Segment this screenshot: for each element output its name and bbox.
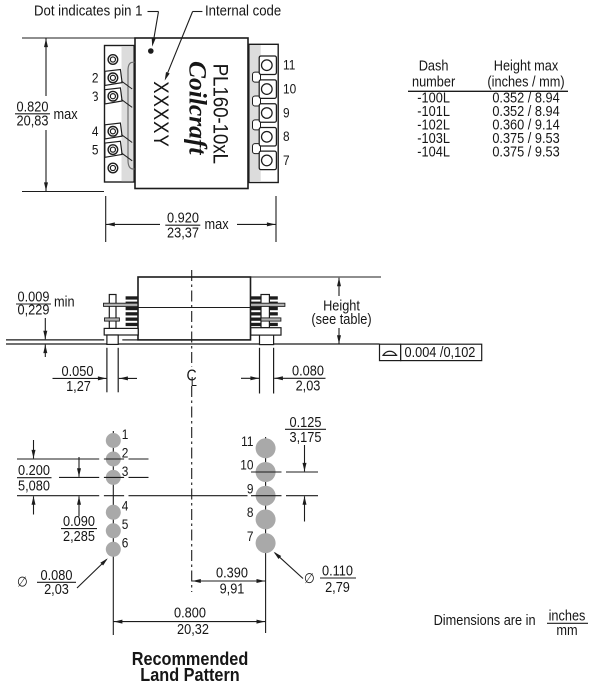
internal code leader line	[165, 12, 203, 81]
pin 1 leader line	[148, 12, 159, 47]
diameter callout 0.080/2,03	[17, 558, 108, 597]
table row -104L	[417, 144, 559, 160]
svg-text:5: 5	[92, 142, 99, 158]
pin 9 square pad	[259, 104, 276, 123]
svg-text:6: 6	[122, 535, 129, 551]
right lead foot	[251, 328, 281, 335]
land pad 7 label	[247, 528, 254, 544]
svg-text:0.375 / 9.53: 0.375 / 9.53	[492, 144, 559, 160]
label Internal code	[205, 2, 281, 19]
marking text XXXXY	[149, 81, 172, 147]
land pad 6	[106, 542, 121, 557]
land pad 2 label	[122, 445, 129, 461]
left lead pin fins	[126, 296, 138, 326]
svg-text:20,83: 20,83	[17, 113, 49, 129]
dimension 0.080/2,03	[241, 363, 326, 394]
dimension 0.009/0,229 min	[16, 289, 75, 357]
land pad 7	[256, 533, 276, 553]
pin 7 square pad	[259, 151, 276, 170]
svg-text:Internal code: Internal code	[205, 2, 281, 19]
right pin header strip	[249, 44, 278, 182]
land pad 5 label	[122, 516, 129, 532]
svg-text:L: L	[191, 375, 198, 389]
land pad 3 label	[122, 463, 129, 479]
side view body mid line	[138, 307, 251, 309]
right crimp bar lower	[261, 318, 281, 321]
table header	[412, 58, 565, 90]
label Dot indicates pin 1	[34, 2, 143, 19]
left crimp bar lower	[105, 318, 120, 321]
pin 11 square pad	[259, 56, 276, 74]
pin 5 terminal plate	[105, 141, 132, 161]
dimension 0.090/2,285	[61, 457, 97, 544]
top view pin 5 label	[92, 142, 99, 158]
svg-text:(see table): (see table)	[311, 311, 371, 327]
right crimp bar upper	[251, 303, 285, 306]
centerline symbol	[187, 367, 198, 389]
svg-text:2,03: 2,03	[296, 378, 321, 394]
svg-text:20,32: 20,32	[177, 621, 209, 637]
top view 0.820 dim top extension line	[22, 37, 135, 39]
dimension 0.050/1,27	[53, 363, 138, 394]
right header tab 1	[253, 72, 261, 82]
land pad 11 label	[241, 433, 253, 449]
height dim extension line	[251, 276, 382, 278]
pin 8 square pad	[259, 128, 276, 147]
svg-text:2,79: 2,79	[325, 579, 350, 595]
land pad 4 label	[122, 498, 129, 514]
svg-text:XXXXY: XXXXY	[149, 81, 172, 147]
svg-text:PL160-10xL: PL160-10xL	[208, 64, 231, 164]
svg-text:0.080: 0.080	[292, 363, 324, 379]
svg-text:11: 11	[283, 57, 295, 73]
pad 10 level extension line	[251, 471, 318, 473]
seating plane upper line	[6, 339, 138, 341]
land pad 4	[106, 505, 121, 520]
left lead through-pin	[107, 335, 118, 392]
svg-text:2,03: 2,03	[44, 581, 69, 597]
right lead post	[261, 295, 269, 328]
left pin header strip	[105, 46, 135, 183]
top view pin 7 label	[283, 152, 290, 168]
svg-text:number: number	[412, 74, 456, 90]
svg-text:0.090: 0.090	[63, 513, 95, 529]
dimension 0.820/20,83 max	[2, 38, 104, 192]
dimension 0.390/9,91	[192, 565, 266, 597]
svg-text:2: 2	[92, 70, 99, 86]
dimension Height (see table)	[311, 278, 371, 344]
svg-text:0.920: 0.920	[167, 210, 199, 226]
svg-text:9: 9	[283, 105, 290, 121]
land pattern left column line	[112, 431, 114, 635]
flatness callout 0.004/0,102	[380, 344, 482, 360]
svg-text:Dimensions are in: Dimensions are in	[434, 612, 536, 628]
right lead through-pin	[260, 335, 274, 393]
svg-text:max: max	[205, 216, 229, 232]
pin 10 square pad	[259, 80, 276, 99]
pin 4 eyelet	[108, 127, 118, 137]
svg-text:inches: inches	[549, 608, 586, 624]
svg-text:3,175: 3,175	[290, 429, 322, 445]
land pad 10	[256, 462, 276, 482]
Coilcraft script logo	[184, 61, 213, 155]
svg-text:4: 4	[122, 498, 129, 514]
land pad 1	[106, 433, 121, 448]
svg-text:11: 11	[241, 433, 253, 449]
svg-text:9: 9	[247, 481, 254, 497]
land pattern right column line	[265, 437, 267, 633]
pad 2 level extension line	[17, 458, 149, 460]
svg-text:0.200: 0.200	[18, 462, 50, 478]
left bobbin flange edge	[128, 62, 135, 169]
table row -102L	[417, 117, 560, 133]
top view pin 4 label	[92, 123, 99, 139]
svg-text:8: 8	[247, 504, 254, 520]
top view pin 10 label	[283, 81, 296, 97]
land pad 1 label	[122, 426, 129, 442]
svg-text:1: 1	[122, 426, 129, 442]
marking text PL160-10xL	[208, 64, 231, 164]
land pad 2	[106, 452, 121, 467]
pin 2 eyelet	[108, 73, 118, 83]
pin 10 eyelet	[262, 84, 273, 95]
pin 11 eyelet	[262, 60, 273, 71]
svg-text:23,37: 23,37	[167, 225, 199, 241]
units note	[434, 608, 588, 639]
right header tab 3	[253, 120, 261, 130]
pin 9 eyelet	[262, 108, 273, 119]
pin 1 indicator dot	[148, 48, 154, 54]
pin 7 eyelet	[262, 155, 273, 166]
svg-text:5: 5	[122, 516, 129, 532]
dimension 0.920/23,37 max	[106, 196, 276, 242]
pin 5 eyelet	[108, 145, 118, 155]
top view pin 11 label	[283, 57, 295, 73]
svg-text:10: 10	[283, 81, 296, 97]
top view pin 8 label	[283, 128, 290, 144]
svg-text:0.390: 0.390	[216, 565, 248, 581]
top view pin 9 label	[283, 105, 290, 121]
pin 2 terminal plate	[105, 70, 132, 90]
svg-text:mm: mm	[556, 622, 577, 638]
svg-text:∅: ∅	[17, 574, 28, 590]
table header rule	[408, 90, 568, 92]
land pad 10 label	[240, 457, 253, 473]
land pad 6 label	[122, 535, 129, 551]
svg-text:0.800: 0.800	[174, 605, 206, 621]
top view body outline	[135, 38, 248, 189]
diameter callout 0.110/2,79	[274, 552, 356, 595]
svg-text:min: min	[54, 294, 75, 310]
svg-text:0.125: 0.125	[290, 414, 322, 430]
svg-text:2: 2	[122, 445, 129, 461]
pin 8 eyelet	[262, 132, 273, 143]
right header tab 4	[253, 144, 261, 154]
dimension 0.200/5,080	[17, 440, 52, 515]
vertical centerline	[191, 270, 193, 592]
svg-text:9,91: 9,91	[220, 581, 245, 597]
svg-text:7: 7	[283, 152, 290, 168]
pin 3 eyelet	[108, 91, 118, 101]
svg-text:1,27: 1,27	[66, 378, 91, 394]
top view pin 3 label	[92, 88, 99, 104]
table row -103L	[417, 130, 559, 146]
svg-text:8: 8	[283, 128, 290, 144]
top view pin 2 label	[92, 70, 99, 86]
svg-text:2,285: 2,285	[63, 528, 95, 544]
right lead pin fins	[251, 296, 278, 326]
svg-text:0.110: 0.110	[322, 563, 353, 579]
pad 9 level reference line	[17, 495, 318, 497]
svg-text:10: 10	[240, 457, 253, 473]
seating plane lower line	[6, 343, 380, 345]
side view body	[138, 277, 251, 340]
svg-text:0.004 /0,102: 0.004 /0,102	[405, 344, 476, 360]
land pad 8 label	[247, 504, 254, 520]
svg-text:Height max: Height max	[494, 58, 559, 74]
land pad 11	[256, 438, 276, 458]
svg-text:7: 7	[247, 528, 254, 544]
dimension 0.125/3,175	[285, 414, 326, 521]
svg-text:3: 3	[122, 463, 129, 479]
svg-text:Coilcraft: Coilcraft	[184, 61, 213, 155]
svg-text:-104L: -104L	[417, 144, 450, 160]
land pad 8	[256, 509, 276, 529]
svg-text:5,080: 5,080	[18, 478, 50, 494]
land pad 9	[256, 486, 276, 506]
land pad 3	[106, 470, 121, 485]
pad 3 level extension line	[59, 476, 149, 478]
left lead post	[109, 295, 116, 329]
svg-text:∅: ∅	[304, 570, 315, 586]
pin 4 terminal plate	[105, 123, 132, 143]
table row -101L	[417, 103, 560, 119]
svg-text:Dash: Dash	[419, 58, 449, 74]
svg-text:max: max	[54, 106, 78, 122]
left crimp bar upper	[104, 303, 138, 306]
left lead foot	[104, 328, 138, 335]
svg-text:0,229: 0,229	[18, 302, 50, 318]
caption Recommended Land Pattern	[132, 648, 249, 685]
svg-text:Land Pattern: Land Pattern	[140, 664, 239, 685]
dimension 0.800/20,32	[113, 605, 265, 637]
land pad 9 label	[247, 481, 254, 497]
right header tab 2	[253, 96, 261, 106]
pin 6 eyelet	[108, 163, 118, 173]
pin 3 terminal plate	[105, 88, 132, 108]
svg-text:Dot indicates pin 1: Dot indicates pin 1	[34, 2, 143, 19]
land pad 5	[106, 523, 121, 538]
svg-text:(inches / mm): (inches / mm)	[487, 74, 564, 90]
pin 1 eyelet	[108, 55, 118, 65]
table row -100L	[417, 90, 560, 106]
svg-text:0.050: 0.050	[62, 363, 94, 379]
